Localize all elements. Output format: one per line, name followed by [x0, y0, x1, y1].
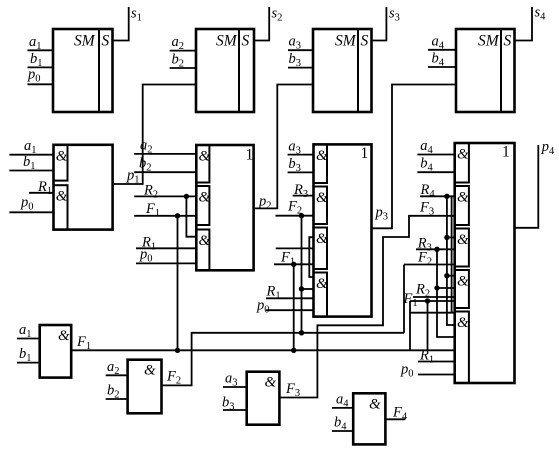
sum module SM4: [456, 29, 515, 112]
carry4 input F1: [403, 291, 455, 309]
junction R4 branch: [444, 194, 449, 199]
svg-text:S: S: [242, 33, 250, 50]
svg-text:F1: F1: [76, 334, 91, 352]
junction R4 tap at AND3: [444, 235, 449, 240]
svg-text:b3: b3: [289, 51, 302, 69]
svg-text:&: &: [56, 189, 68, 205]
svg-text:&: &: [457, 315, 469, 331]
svg-text:&: &: [316, 190, 328, 206]
wire R2 branch into carry2 third AND: [186, 196, 196, 236]
carry4 input R3: [416, 235, 455, 253]
svg-text:a1: a1: [29, 34, 42, 52]
carry block 4 (AND-OR): [455, 143, 515, 383]
svg-text:R4: R4: [420, 182, 436, 200]
wire F1 branch down to bus level into fifth AND: [427, 301, 429, 350]
SM2 input a2: [170, 34, 196, 52]
wire F4 output: [385, 404, 407, 422]
carry2 input p0: [136, 247, 196, 265]
F3 gate input a3: [223, 371, 247, 389]
svg-text:SM: SM: [216, 33, 238, 50]
svg-text:a1: a1: [19, 322, 32, 340]
wire s3 output: [372, 6, 400, 41]
SM2 input b2: [170, 52, 196, 70]
F1 gate input a1: [17, 322, 40, 340]
svg-text:&: &: [58, 328, 70, 344]
wire s4 output: [515, 5, 547, 41]
junction F2 at carry3: [299, 213, 304, 218]
F3 gate input b3: [222, 395, 247, 413]
svg-text:a3: a3: [289, 34, 302, 52]
wire R3 vertical with end tap into AND5: [437, 249, 455, 337]
svg-text:b4: b4: [432, 51, 445, 69]
wire p3 from carry3 to SM4: [372, 85, 457, 229]
carry3 input F1: [274, 249, 314, 267]
SM3 input a3: [288, 34, 313, 52]
carry2 input a2: [134, 137, 196, 155]
svg-text:b2: b2: [107, 383, 120, 401]
svg-text:&: &: [369, 396, 381, 412]
junction F1 bus at carry2 riser: [175, 348, 180, 353]
svg-text:SM: SM: [74, 33, 96, 50]
carry3 input F2: [276, 199, 314, 217]
svg-text:s3: s3: [389, 6, 400, 24]
F1 gate input b1: [17, 346, 40, 364]
svg-text:1: 1: [246, 147, 254, 164]
wire tap vertical into carry3 third and fourth AND: [309, 237, 313, 277]
svg-text:R1: R1: [37, 179, 52, 197]
svg-text:a2: a2: [107, 359, 120, 377]
junction F1 at carry3: [291, 262, 296, 267]
carry1 input a1: [9, 138, 53, 156]
svg-text:b4: b4: [420, 155, 433, 173]
SM1 input p0: [27, 66, 53, 84]
carry2 input R1: [136, 234, 196, 252]
svg-text:&: &: [457, 232, 469, 248]
wire F1 riser from F1 bus up to carry4 fourth AND: [409, 301, 411, 350]
svg-text:&: &: [199, 233, 211, 249]
svg-text:p3: p3: [375, 205, 389, 223]
svg-text:F3: F3: [285, 381, 300, 399]
svg-text:&: &: [199, 149, 211, 165]
wire F1 riser carry3 to F1 bus: [293, 264, 295, 350]
wire p2 from carry2 to SM3: [254, 85, 313, 212]
F4 gate input b4: [332, 415, 353, 433]
svg-text:R2: R2: [143, 182, 158, 200]
svg-text:SM: SM: [478, 33, 500, 50]
wire p4 output: [514, 139, 555, 228]
svg-text:b1: b1: [19, 346, 32, 364]
svg-text:S: S: [504, 33, 512, 50]
wire tap into carry4 fifth AND: [410, 312, 455, 314]
wire F2 tap into carry3 fourth AND: [302, 288, 314, 290]
svg-text:&: &: [56, 148, 68, 164]
carry3 input a3: [288, 138, 314, 156]
svg-text:R1: R1: [266, 284, 281, 302]
svg-text:R2: R2: [415, 282, 430, 300]
svg-text:&: &: [316, 148, 328, 164]
SM4 input a4: [428, 33, 456, 51]
wire p1 from carry1 to SM2: [113, 85, 196, 186]
svg-text:F1: F1: [145, 201, 160, 219]
svg-text:&: &: [199, 190, 211, 206]
svg-text:&: &: [316, 231, 328, 247]
svg-text:1: 1: [361, 145, 369, 162]
svg-text:p1: p1: [126, 168, 140, 186]
svg-text:SM: SM: [335, 33, 357, 50]
svg-text:F3: F3: [419, 200, 434, 218]
carry4 input F3 with route from F3 gate: [279, 200, 454, 398]
carry1 input b1: [9, 154, 53, 172]
svg-text:p0: p0: [20, 194, 34, 212]
svg-text:b2: b2: [172, 52, 185, 70]
svg-text:p4: p4: [541, 139, 555, 157]
junction F2 tap into carry3 fourth AND: [299, 286, 304, 291]
carry2 input b2: [134, 156, 196, 174]
svg-text:a4: a4: [432, 33, 445, 51]
svg-text:a2: a2: [172, 34, 185, 52]
F2 gate input a2: [106, 359, 128, 377]
carry4 input b4: [417, 155, 454, 173]
wire R4 tap into AND3: [447, 237, 455, 239]
wire s1 output: [113, 6, 142, 41]
carry4 input p0: [400, 362, 455, 380]
svg-text:b1: b1: [23, 154, 36, 172]
junction F1 bus at carry3 riser: [291, 348, 296, 353]
carry block 2 (AND-OR): [196, 145, 253, 270]
wire F1 riser carry2 to F1 bus: [177, 216, 179, 350]
junction F2 bus at carry3 riser: [299, 330, 304, 335]
svg-text:s2: s2: [272, 6, 283, 24]
junction R4 tap at AND4: [444, 273, 449, 278]
svg-text:p0: p0: [27, 66, 41, 84]
svg-text:b2: b2: [139, 156, 152, 174]
carry3 input R3: [293, 182, 314, 200]
wire F1 bus: [71, 334, 455, 352]
svg-text:b3: b3: [288, 156, 301, 174]
svg-text:&: &: [457, 274, 469, 290]
svg-text:a3: a3: [225, 371, 238, 389]
carry block 3 (AND-OR): [314, 144, 372, 316]
svg-text:a3: a3: [288, 138, 301, 156]
svg-text:a4: a4: [420, 138, 433, 156]
svg-text:a4: a4: [336, 391, 349, 409]
sum module SM1: [53, 29, 113, 112]
carry4 input R4: [420, 182, 455, 200]
carry3 input R1: [266, 284, 314, 302]
svg-text:p2: p2: [258, 193, 272, 211]
junction R3 tap at AND4: [434, 285, 439, 290]
carry3 input line into third AND: [276, 247, 314, 249]
F2 gate input b2: [106, 383, 128, 401]
svg-text:&: &: [316, 276, 328, 292]
AND gate F4: [353, 393, 385, 444]
svg-text:p0: p0: [256, 298, 270, 316]
junction R2 branch: [184, 194, 189, 199]
svg-text:S: S: [102, 33, 110, 50]
wire R4 tap into AND4: [447, 275, 455, 277]
svg-text:b4: b4: [334, 415, 347, 433]
svg-text:p0: p0: [400, 362, 414, 380]
svg-text:&: &: [457, 147, 469, 163]
svg-text:&: &: [457, 190, 469, 206]
carry1 input R1: [29, 179, 54, 197]
svg-text:&: &: [144, 363, 156, 379]
svg-text:&: &: [265, 375, 277, 391]
svg-text:S: S: [361, 33, 369, 50]
carry4 input R1: [418, 348, 455, 366]
svg-text:F2: F2: [166, 369, 181, 387]
junction F1 at carry2: [175, 213, 180, 218]
carry1 input p0: [9, 194, 53, 212]
AND gate F3: [247, 372, 280, 425]
SM1 input b1: [28, 51, 54, 69]
AND gate F2: [128, 360, 162, 414]
carry3 input b3: [288, 156, 314, 174]
sum module SM3: [313, 29, 372, 112]
SM3 input b3: [288, 51, 313, 69]
wire F2 riser carry3 to F2 bus: [301, 216, 303, 333]
carry2 input F1: [134, 201, 196, 219]
junction R3 branch: [434, 247, 439, 252]
wire R3 tap into AND4: [437, 287, 455, 289]
svg-text:F4: F4: [392, 404, 408, 422]
carry block 1 (AND-OR): [54, 145, 113, 230]
wire auxiliary vertical beside carry4 edge: [451, 196, 453, 312]
svg-text:1: 1: [502, 144, 510, 161]
wire R4 vertical with end tap into AND5: [447, 196, 455, 325]
svg-text:s4: s4: [535, 5, 547, 23]
F4 gate input a4: [332, 391, 353, 409]
AND gate F1: [40, 325, 71, 378]
carry3 input p0: [256, 298, 314, 316]
wire F2 bus: [162, 333, 405, 387]
junction F1 branch at carry4: [425, 298, 430, 303]
SM4 input b4: [428, 51, 456, 69]
sum module SM2: [196, 29, 254, 112]
carry2 input R2: [134, 182, 196, 200]
carry4 input F2 with route from F2 bus: [404, 250, 455, 333]
SM1 input a1: [28, 34, 54, 52]
carry4 input R2: [413, 282, 455, 300]
svg-text:R3: R3: [293, 182, 308, 200]
svg-text:b3: b3: [222, 395, 235, 413]
wire s2 output: [254, 6, 282, 41]
carry4 input a4: [417, 138, 454, 156]
svg-text:a2: a2: [140, 137, 153, 155]
svg-text:s1: s1: [131, 6, 142, 24]
